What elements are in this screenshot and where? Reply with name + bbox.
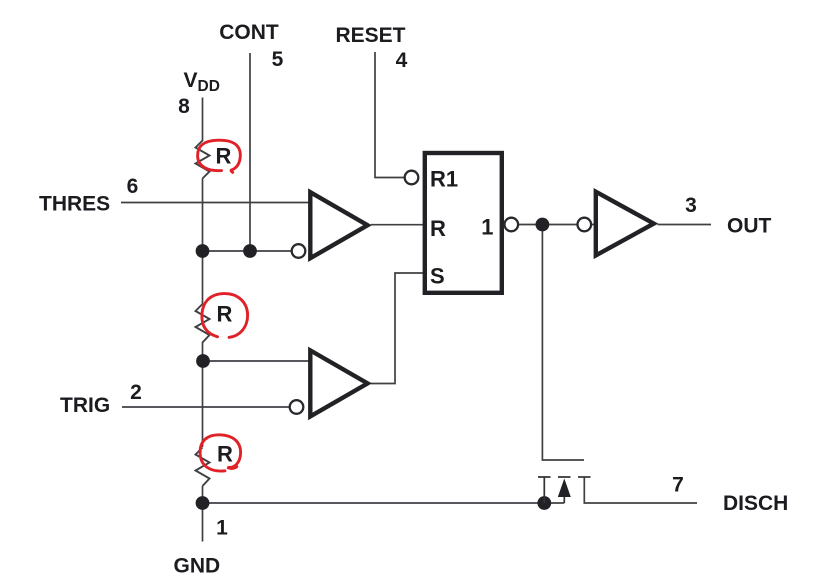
- annotation red circle around top R: [198, 140, 241, 172]
- svg-text:VDD: VDD: [184, 69, 220, 95]
- wire output buffer to OUT pin: [658, 224, 712, 226]
- svg-text:RESET: RESET: [335, 24, 405, 47]
- junction dot flip-flop output row: [536, 218, 550, 232]
- svg-text:CONT: CONT: [219, 21, 279, 44]
- transistor Q1 arrow: [558, 479, 571, 498]
- flip-flop label R1: [430, 167, 458, 192]
- svg-text:2: 2: [130, 381, 142, 404]
- svg-text:GND: GND: [174, 555, 221, 578]
- svg-text:4: 4: [396, 49, 408, 72]
- svg-text:6: 6: [127, 175, 139, 198]
- label CONT: [219, 21, 279, 44]
- wire VDD rail vertical: [202, 98, 204, 542]
- label TRIG: [60, 394, 110, 417]
- wire flip-flop output down to transistor gate: [542, 225, 584, 461]
- wire transistor drain to DISCH pin: [584, 477, 697, 503]
- pin number 3: [685, 194, 697, 217]
- inverter bubble on comparator 2 input: [290, 400, 304, 414]
- transistor Q1 discharge MOSFET: [538, 477, 591, 503]
- wire TRIG horizontal: [122, 406, 290, 408]
- wire divider node to comparator 2 upper input: [203, 360, 312, 362]
- svg-text:1: 1: [481, 215, 493, 240]
- wire flip-flop output row: [518, 224, 596, 226]
- flip-flop U1 box: [425, 153, 502, 293]
- inverter bubble on R1 input: [405, 171, 419, 185]
- label VDD: [184, 69, 220, 95]
- pin number 4: [396, 49, 408, 72]
- svg-text:THRES: THRES: [39, 193, 110, 216]
- pin number 5: [272, 48, 284, 71]
- output buffer U4: [596, 192, 654, 256]
- label RESET: [335, 24, 405, 47]
- pin number 6: [127, 175, 139, 198]
- annotation red circle around middle R: [202, 294, 248, 338]
- pin number 1: [216, 517, 228, 540]
- annotation red circle around bottom R: [200, 435, 241, 471]
- svg-text:DISCH: DISCH: [723, 492, 788, 515]
- wire CONT vertical: [249, 53, 251, 251]
- flip-flop label R: [430, 216, 446, 241]
- pin number 7: [672, 474, 684, 497]
- svg-text:OUT: OUT: [727, 215, 772, 238]
- wire THRES horizontal: [121, 202, 311, 204]
- svg-text:TRIG: TRIG: [60, 394, 110, 417]
- label R bottom resistor: [217, 442, 233, 467]
- wire comparator 1 output to R input: [371, 224, 424, 226]
- svg-text:3: 3: [685, 194, 697, 217]
- svg-text:R: R: [216, 144, 232, 169]
- svg-text:1: 1: [216, 517, 228, 540]
- pin number 2: [130, 381, 142, 404]
- label OUT: [727, 215, 772, 238]
- svg-text:R1: R1: [430, 167, 458, 192]
- junction dot CONT line on node row: [243, 244, 257, 258]
- svg-text:7: 7: [672, 474, 684, 497]
- junction dot at divider node and CONT: [196, 244, 210, 258]
- flip-flop output pin label 1: [481, 215, 493, 240]
- inverter bubble on output buffer input: [578, 218, 592, 232]
- wire comparator 2 output to S input: [371, 273, 424, 384]
- svg-text:8: 8: [178, 95, 190, 118]
- label R middle resistor: [217, 302, 233, 327]
- inverter bubble on flip-flop output: [505, 218, 519, 232]
- svg-text:S: S: [430, 264, 445, 289]
- svg-text:R: R: [430, 216, 446, 241]
- wire RESET vertical and to R1 bubble: [375, 52, 405, 178]
- comparator U3 (trigger): [310, 350, 367, 416]
- svg-text:R: R: [217, 442, 233, 467]
- pin number 8: [178, 95, 190, 118]
- label R top resistor: [216, 144, 232, 169]
- label THRES: [39, 193, 110, 216]
- svg-text:5: 5: [272, 48, 284, 71]
- inverter bubble on comparator 1 input: [292, 244, 306, 258]
- comparator U2 (threshold): [310, 192, 367, 258]
- junction dot divider mid node: [196, 354, 210, 368]
- wire GND row from divider bottom to transistor: [203, 502, 565, 504]
- junction dot GND node: [196, 496, 210, 510]
- label GND: [174, 555, 221, 578]
- resistor R top: [196, 141, 210, 179]
- resistor R middle: [196, 304, 210, 343]
- wire node row to comparator 1 inverting input: [203, 250, 292, 252]
- resistor R bottom: [196, 448, 210, 487]
- junction dot transistor source on GND row: [537, 496, 551, 510]
- label DISCH: [723, 492, 788, 515]
- flip-flop label S: [430, 264, 445, 289]
- svg-text:R: R: [217, 302, 233, 327]
